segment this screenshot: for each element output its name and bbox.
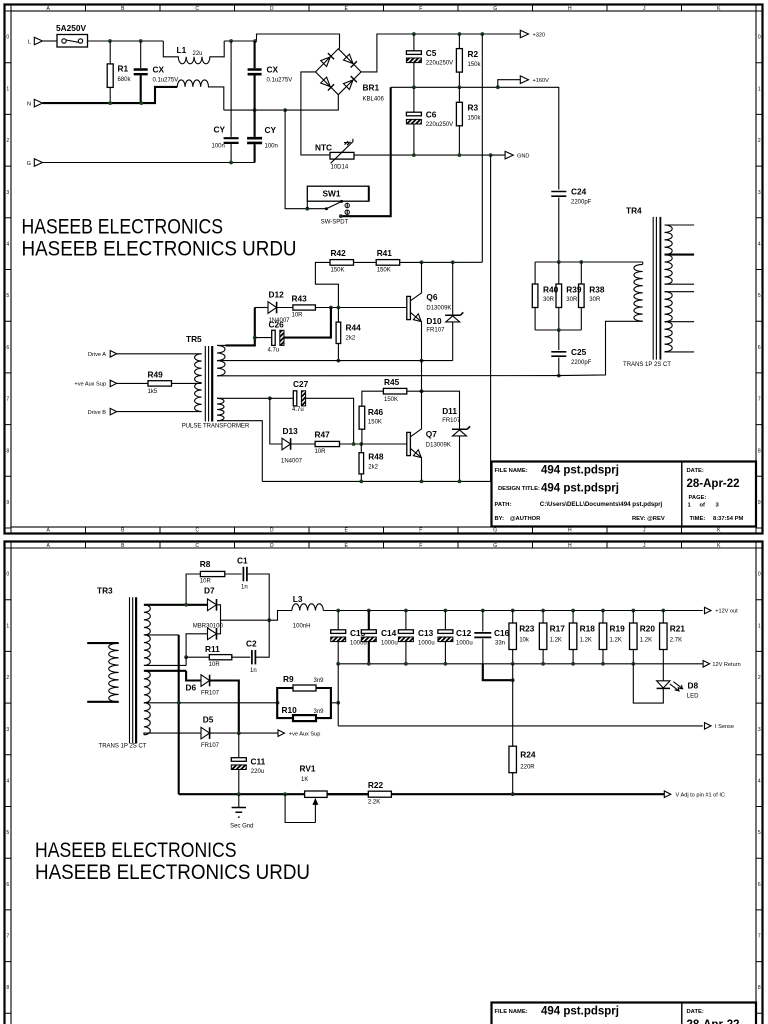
wire [43, 40, 58, 42]
wire RV1 wiper loop [285, 794, 315, 822]
wire [327, 793, 368, 795]
resistor R38 30R [579, 284, 585, 308]
node junction [511, 678, 515, 682]
svg-text:D6: D6 [186, 683, 197, 693]
node junction [511, 792, 515, 796]
wire [413, 63, 415, 88]
wire D7 cathodes join [217, 605, 221, 634]
svg-text:0.1u275V: 0.1u275V [267, 78, 293, 84]
wire [247, 574, 269, 604]
bridge rectifier BR1 KBL406 [316, 49, 362, 95]
node junction [339, 214, 343, 218]
svg-text:Sec Gnd: Sec Gnd [230, 823, 253, 829]
capacitor C27 4.7u [293, 391, 297, 406]
wire [458, 126, 460, 155]
wire CY1 from top rail [230, 41, 232, 137]
node junction [404, 662, 408, 666]
svg-text:1.2K: 1.2K [610, 638, 622, 644]
svg-text:2k2: 2k2 [368, 465, 378, 471]
node G input [34, 159, 42, 167]
node V Adj output [664, 791, 671, 798]
wire R45 to midpoint [407, 390, 422, 392]
wire midpoint vertical [421, 361, 423, 392]
svg-text:R9: R9 [283, 674, 294, 684]
wire [413, 87, 415, 112]
wire D7 output [221, 611, 292, 621]
wire [255, 337, 272, 339]
svg-text:D: D [270, 6, 274, 12]
svg-text:150k: 150k [468, 62, 482, 68]
node junction [496, 85, 500, 89]
svg-text:4: 4 [758, 778, 761, 784]
resistor R1 680k [107, 64, 113, 88]
svg-text:R11: R11 [205, 644, 220, 654]
wire [361, 429, 363, 444]
svg-text:R19: R19 [610, 624, 626, 634]
capacitor C14 plates [361, 630, 376, 634]
wire [117, 411, 202, 413]
svg-text:100n: 100n [212, 144, 225, 150]
node Drive B input [110, 408, 117, 415]
svg-text:V Adj to pin #1 of IC: V Adj to pin #1 of IC [676, 792, 725, 798]
svg-text:2200pF: 2200pF [571, 360, 592, 366]
svg-text:R38: R38 [589, 285, 605, 295]
svg-text:150k: 150k [468, 116, 482, 122]
svg-text:+ve Aux Sup: +ve Aux Sup [74, 382, 106, 388]
svg-text:1000u: 1000u [418, 640, 435, 646]
node 12V Return output [703, 661, 710, 668]
svg-text:D7: D7 [204, 585, 215, 595]
svg-text:TR3: TR3 [97, 586, 113, 596]
svg-text:C13: C13 [418, 628, 434, 638]
node junction [631, 662, 635, 666]
svg-text:+12V out: +12V out [715, 609, 738, 615]
svg-text:2.2K: 2.2K [368, 799, 380, 805]
node Drive A input [110, 351, 117, 358]
resistor R47 10R [315, 441, 339, 446]
node junction [557, 260, 561, 264]
svg-text:C27: C27 [293, 379, 309, 389]
node +160V output [498, 80, 521, 88]
svg-text:R1: R1 [118, 64, 129, 74]
svg-text:4.7u: 4.7u [292, 407, 304, 413]
svg-text:LED: LED [687, 694, 699, 700]
node junction [458, 85, 462, 89]
transformer TR5 primary winding [195, 354, 202, 412]
wire [360, 444, 362, 453]
node junction [283, 792, 287, 796]
svg-text:2: 2 [6, 675, 9, 681]
svg-text:3: 3 [6, 190, 9, 196]
capacitor C11 220u [231, 758, 246, 762]
svg-text:8: 8 [6, 448, 9, 454]
transistor Q7 D13009K [407, 432, 411, 455]
svg-text:D13009K: D13009K [426, 442, 451, 448]
resistor R22 2.2K [368, 791, 391, 797]
diode D7 MBR30100 (upper) [208, 599, 217, 611]
node junction [404, 609, 408, 613]
thermistor NTC 10D14 [330, 152, 354, 159]
svg-text:FR107: FR107 [442, 418, 461, 424]
wire [255, 636, 269, 657]
svg-text:10R: 10R [200, 578, 212, 584]
resistor R49 1k5 [148, 381, 172, 386]
svg-text:10R: 10R [292, 313, 304, 319]
wire snubber bottom rail [535, 329, 581, 331]
capacitor C6 220u250V [406, 112, 421, 116]
node junction [336, 662, 340, 666]
wire CT ground vertical [178, 635, 180, 794]
svg-text:R22: R22 [368, 780, 384, 790]
inductor L1 22u [163, 41, 224, 64]
node junction [571, 609, 575, 613]
svg-text:L1: L1 [177, 45, 187, 55]
node junction [337, 359, 341, 363]
svg-text:NTC: NTC [315, 143, 332, 153]
svg-text:6: 6 [758, 345, 761, 351]
node junction [480, 32, 484, 36]
wire sec1 top to D7 [186, 604, 207, 606]
svg-text:CX: CX [267, 65, 279, 75]
wire [186, 656, 209, 658]
svg-text:R47: R47 [315, 430, 331, 440]
svg-text:C5: C5 [426, 48, 437, 58]
svg-text:33n: 33n [495, 640, 505, 646]
resistor R18 1.2K [569, 623, 577, 650]
capacitor C16 33n [474, 633, 491, 638]
svg-text:R44: R44 [346, 323, 362, 333]
svg-text:D10: D10 [426, 316, 442, 326]
wire emitter row to D10 [422, 360, 453, 362]
resistor R43 10R [293, 305, 316, 310]
svg-text:G: G [493, 528, 497, 534]
node junction [458, 32, 462, 36]
svg-text:220R: 220R [520, 765, 535, 771]
transformer TR5 core [205, 346, 208, 422]
node junction [139, 39, 143, 43]
svg-text:+ve Aux Sup: +ve Aux Sup [289, 731, 321, 737]
svg-text:C26: C26 [269, 320, 285, 330]
wire [444, 642, 446, 664]
node junction [229, 39, 233, 43]
node junction [489, 153, 493, 157]
wire [268, 604, 270, 636]
svg-text:Q7: Q7 [426, 429, 437, 439]
svg-text:C: C [195, 6, 199, 12]
resistor R2 150k [456, 49, 462, 73]
svg-text:3n9: 3n9 [314, 678, 325, 684]
svg-text:R45: R45 [384, 377, 400, 387]
svg-text:@AUTHOR: @AUTHOR [510, 516, 541, 522]
svg-text:D: D [270, 528, 274, 534]
wire midpoint to Q7 collector [421, 391, 423, 429]
svg-text:30R: 30R [543, 297, 555, 303]
resistor R19 1.2K [599, 623, 607, 650]
svg-text:RV1: RV1 [300, 764, 316, 774]
svg-text:1: 1 [6, 86, 9, 92]
transformer TR3 secondary 1 [144, 604, 186, 606]
svg-text:L: L [28, 40, 31, 46]
wire base row [340, 443, 407, 445]
wire sec2 bottom to D5 [144, 733, 201, 735]
svg-text:3: 3 [6, 727, 9, 733]
svg-text:+320: +320 [533, 32, 546, 38]
svg-text:BR1: BR1 [363, 83, 380, 93]
wire [444, 611, 446, 630]
fuse FU1 5A250V [57, 35, 88, 48]
wire R23 bottom to R24 [512, 664, 514, 746]
wire bridge - down to NTC [301, 72, 330, 155]
svg-text:C24: C24 [571, 187, 587, 197]
transformer TR4 primary winding [642, 262, 644, 264]
svg-text:TRANS 1P 2S CT: TRANS 1P 2S CT [623, 362, 671, 368]
svg-text:7: 7 [758, 934, 761, 940]
wire [238, 733, 240, 758]
diode D7 MBR30100 (lower) [208, 628, 217, 640]
svg-text:5: 5 [6, 830, 9, 836]
svg-text:28-Apr-22: 28-Apr-22 [687, 1019, 740, 1024]
svg-text:1: 1 [758, 623, 761, 629]
svg-text:494 pst.pdsprj: 494 pst.pdsprj [541, 465, 619, 477]
wire Q6 emitter [421, 322, 423, 361]
transformer TR4 secondary 1 [665, 224, 695, 226]
svg-text:SW-SPDT: SW-SPDT [321, 220, 349, 226]
svg-text:H: H [568, 6, 572, 12]
svg-text:1.2K: 1.2K [550, 638, 562, 644]
capacitor C12 plates [438, 630, 453, 634]
capacitor C25 2200pF [551, 352, 566, 356]
svg-text:REV: @REV: REV: @REV [632, 516, 665, 522]
svg-text:10R: 10R [209, 662, 221, 668]
svg-text:1.2K: 1.2K [580, 638, 592, 644]
svg-text:150K: 150K [384, 397, 398, 403]
svg-text:Q6: Q6 [426, 292, 437, 302]
svg-text:SW1: SW1 [323, 189, 341, 199]
svg-text:G: G [493, 6, 497, 12]
svg-text:C11: C11 [251, 757, 266, 767]
wire [315, 307, 406, 309]
svg-text:3: 3 [758, 727, 761, 733]
wire Q7 emitter [421, 458, 423, 481]
svg-text:0: 0 [758, 572, 761, 578]
capacitor C26 4.7u [272, 330, 276, 345]
svg-text:8: 8 [758, 448, 761, 454]
wire R44 bottom to emitter row [337, 344, 339, 361]
svg-text:D12: D12 [269, 290, 285, 300]
resistor R41 150K [376, 260, 400, 266]
svg-text:R48: R48 [368, 451, 384, 461]
node junction [268, 396, 272, 400]
resistor R40 30R [532, 284, 538, 308]
transformer TR4 core [653, 217, 656, 360]
wire [140, 75, 142, 103]
wire emitter row [262, 480, 490, 482]
node junction [458, 480, 462, 484]
wire sense pair frame [277, 688, 293, 718]
capacitor CX 0.1u275V [134, 70, 148, 75]
resistor R20 1.2K [630, 623, 638, 650]
node junction [579, 260, 583, 264]
resistor R24 220R [509, 746, 517, 773]
svg-text:R42: R42 [331, 248, 347, 258]
transistor Q6 D13009K [407, 296, 411, 319]
wire [230, 144, 232, 163]
svg-text:30R: 30R [589, 297, 601, 303]
wire [458, 72, 460, 87]
svg-text:R20: R20 [640, 624, 656, 634]
svg-text:6: 6 [6, 882, 9, 888]
svg-text:2.7K: 2.7K [670, 638, 682, 644]
node junction [253, 108, 257, 112]
capacitor C1 1n [243, 567, 247, 581]
wire [558, 330, 560, 350]
wire [458, 34, 460, 49]
wire [210, 732, 278, 734]
svg-text:Drive A: Drive A [88, 352, 106, 358]
svg-text:L3: L3 [293, 594, 303, 604]
diode D13 1N4007 [282, 438, 291, 450]
node junction [184, 603, 188, 607]
wire N branch down to SW1 [285, 110, 326, 209]
svg-text:100nH: 100nH [293, 623, 311, 629]
svg-text:CY: CY [265, 125, 277, 135]
wire [225, 573, 242, 575]
node junction [420, 359, 424, 363]
node junction [541, 609, 545, 613]
wire [482, 611, 484, 632]
switch SW1 SW-SPDT [306, 201, 308, 209]
svg-text:F: F [419, 6, 422, 12]
svg-text:D11: D11 [442, 406, 457, 416]
svg-text:H: H [568, 528, 572, 534]
svg-text:FR107: FR107 [201, 691, 220, 697]
svg-text:0: 0 [6, 35, 9, 41]
resistor R8 10R [200, 571, 224, 576]
wire [172, 382, 202, 384]
svg-text:G: G [493, 543, 497, 549]
node junction [481, 609, 485, 613]
wire [254, 110, 256, 137]
svg-text:HASEEB ELECTRONICS: HASEEB ELECTRONICS [35, 839, 237, 862]
wire [354, 261, 377, 263]
capacitor C13 plates [398, 630, 413, 634]
svg-text:D13009K: D13009K [426, 305, 451, 311]
title block page 2 [492, 1003, 757, 1024]
svg-text:FILE NAME:: FILE NAME: [495, 1009, 528, 1015]
wire top rail to CX2 [224, 34, 339, 49]
svg-text:8: 8 [758, 985, 761, 991]
svg-text:1000u: 1000u [381, 640, 398, 646]
node junction [267, 618, 271, 622]
wire return to sense node [337, 664, 339, 726]
svg-text:150K: 150K [368, 420, 382, 426]
wire Q6 collector [421, 262, 423, 293]
svg-text:R21: R21 [670, 624, 686, 634]
svg-text:TRANS 1P 2S CT: TRANS 1P 2S CT [99, 743, 147, 749]
svg-text:R2: R2 [468, 49, 479, 59]
wire [254, 144, 256, 162]
svg-text:1N4007: 1N4007 [281, 459, 303, 465]
wire bridge bottom to N [285, 95, 338, 110]
svg-text:R43: R43 [292, 293, 308, 303]
node junction [336, 609, 340, 613]
wire [558, 358, 560, 376]
wire [186, 574, 200, 605]
node junction [557, 374, 561, 378]
svg-text:C16: C16 [494, 628, 510, 638]
resistor R17 1.2K [539, 623, 547, 650]
svg-text:F: F [419, 528, 422, 534]
wire [117, 353, 202, 355]
capacitor CY 100n (left) [224, 138, 239, 143]
node junction [139, 101, 143, 105]
svg-text:HASEEB ELECTRONICS URDU: HASEEB ELECTRONICS URDU [22, 238, 297, 261]
svg-text:220u250V: 220u250V [426, 122, 453, 128]
node junction [451, 260, 455, 264]
resistor R11 10R [209, 655, 232, 660]
wire C26 to base node [284, 308, 331, 338]
svg-text:Drive B: Drive B [88, 410, 107, 416]
svg-text:R46: R46 [368, 407, 384, 417]
diode D5 FR107 [201, 727, 210, 739]
resistor R21 2.7K [660, 623, 668, 650]
wire ground rail [179, 702, 278, 704]
capacitor C15 plates [331, 630, 346, 634]
wire [368, 642, 370, 664]
wire 12V return rail [338, 663, 703, 665]
wire [405, 642, 407, 664]
wire [512, 773, 514, 795]
wire [482, 639, 484, 664]
svg-text:150K: 150K [331, 268, 345, 274]
svg-text:150K: 150K [377, 268, 391, 274]
svg-text:2k2: 2k2 [346, 336, 356, 342]
node GND output [505, 151, 513, 159]
svg-text:DATE:: DATE: [687, 1009, 704, 1015]
wire R42 left elbow to base node [315, 262, 338, 307]
node junction [108, 39, 112, 43]
wire V-adj rail [179, 793, 369, 795]
node junction [329, 306, 333, 310]
node +12V out output [705, 607, 712, 614]
node junction [511, 662, 515, 666]
node junction [237, 731, 241, 735]
wire lower row right of L1 [224, 109, 285, 111]
svg-text:CY: CY [214, 125, 226, 135]
page 1 drawing frame [5, 5, 763, 534]
transformer TR4 secondary 2 [665, 291, 695, 293]
resistor R10 3n9 [293, 715, 316, 721]
svg-text:R41: R41 [377, 248, 393, 258]
svg-text:R17: R17 [550, 624, 566, 634]
svg-text:7: 7 [6, 397, 9, 403]
capacitor C2 1n [252, 650, 256, 664]
node junction [631, 609, 635, 613]
svg-text:4: 4 [6, 778, 9, 784]
svg-text:30R: 30R [566, 297, 578, 303]
svg-text:1n: 1n [241, 585, 248, 591]
wire D6 cathode [210, 681, 239, 734]
wire [109, 41, 111, 64]
wire TR4 primary bottom [559, 321, 643, 375]
wire +12V rail [323, 610, 703, 612]
wire N row [43, 87, 178, 103]
resistor R48 2k2 [359, 453, 364, 474]
wire [422, 391, 460, 429]
wire [277, 307, 293, 309]
svg-text:C2: C2 [246, 639, 257, 649]
svg-text:2200pF: 2200pF [571, 200, 592, 206]
